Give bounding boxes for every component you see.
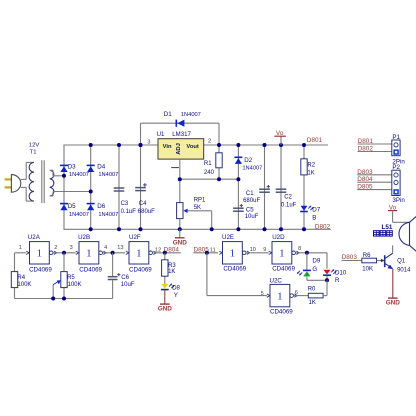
svg-text:3: 3 xyxy=(70,245,73,251)
connector P1 2Pin xyxy=(392,134,406,165)
svg-text:240: 240 xyxy=(204,170,215,176)
svg-text:1N4007: 1N4007 xyxy=(98,212,118,218)
wire speaker to Q1 collector xyxy=(392,245,394,253)
wire secondary top to bridge xyxy=(50,170,64,176)
gate U2E CD4069 xyxy=(219,234,249,273)
svg-text:D10: D10 xyxy=(335,270,347,277)
wire D1 loop xyxy=(141,123,220,145)
net label D801 P1 xyxy=(358,138,392,145)
junction C2 top xyxy=(279,143,283,147)
svg-text:3Pin: 3Pin xyxy=(392,197,405,204)
wire R5 column xyxy=(63,253,65,299)
connector P2 3Pin xyxy=(392,164,406,204)
svg-text:1N4007: 1N4007 xyxy=(69,172,89,178)
junction wiper rail xyxy=(210,227,214,231)
net label D801 top xyxy=(307,137,323,144)
junction R5 top xyxy=(62,251,66,255)
resistor R0 1K xyxy=(308,287,323,306)
wire U2D out to LED pair xyxy=(296,252,327,254)
pin 13 label xyxy=(117,245,123,251)
svg-text:U1: U1 xyxy=(157,131,165,138)
diode D5 1N4007 xyxy=(60,203,89,218)
svg-text:13: 13 xyxy=(117,245,123,251)
svg-text:CD4069: CD4069 xyxy=(272,265,295,272)
junction R2 top xyxy=(302,143,306,147)
junction R1 top xyxy=(217,143,221,147)
speaker L51 buzzer xyxy=(382,216,416,251)
wire ADJ horizontal xyxy=(180,178,239,180)
pin 8 label xyxy=(298,246,301,252)
svg-text:D1: D1 xyxy=(164,111,172,118)
ground GND under D8 xyxy=(158,290,173,313)
capacitor C2 0.1uF xyxy=(276,189,297,208)
svg-text:LM317: LM317 xyxy=(172,131,191,138)
svg-text:R: R xyxy=(335,277,340,284)
wire C1 column xyxy=(264,145,266,229)
op-amp U1 LM317 regulator xyxy=(157,131,204,159)
svg-text:12V: 12V xyxy=(29,143,40,149)
junction R5 bottom xyxy=(62,297,66,301)
svg-text:D801: D801 xyxy=(307,137,323,144)
svg-text:GND: GND xyxy=(173,239,188,246)
wire U2A out to U2B in xyxy=(53,252,75,254)
pin 3 label xyxy=(70,245,73,251)
svg-text:1: 1 xyxy=(37,248,43,260)
svg-text:1N4007: 1N4007 xyxy=(98,172,118,178)
potentiometer R5 100K xyxy=(53,272,81,288)
diode D6 1N4007 xyxy=(87,203,119,218)
svg-text:U2C: U2C xyxy=(270,278,283,285)
transformer T1 xyxy=(29,143,54,204)
gate U2C CD4069 xyxy=(267,278,297,316)
net label D803 P2 xyxy=(357,169,392,176)
ground GND main xyxy=(173,229,188,246)
svg-text:D9: D9 xyxy=(312,258,320,265)
junction wiper bottom xyxy=(51,297,55,301)
pin 5 label xyxy=(261,291,264,297)
svg-text:C3: C3 xyxy=(121,201,129,207)
svg-text:11: 11 xyxy=(210,248,216,254)
svg-text:3: 3 xyxy=(147,139,150,145)
wire RP1 wiper to ground rail xyxy=(187,211,211,230)
svg-text:10K: 10K xyxy=(362,267,373,273)
capacitor C3 0.1uF xyxy=(114,188,137,215)
svg-text:Vin: Vin xyxy=(163,144,172,150)
pin 1 label xyxy=(19,245,22,251)
svg-text:C6: C6 xyxy=(121,275,129,281)
pin 11 label xyxy=(210,248,216,254)
wire Vo to speaker xyxy=(393,211,410,223)
svg-text:10uF: 10uF xyxy=(245,214,259,220)
svg-text:U2A: U2A xyxy=(28,234,41,241)
wire U2B out to U2F in xyxy=(103,252,125,254)
gate U2F CD4069 xyxy=(126,234,156,273)
pin 6 label xyxy=(295,290,298,296)
svg-text:R6: R6 xyxy=(363,253,371,259)
svg-text:1: 1 xyxy=(230,248,236,260)
diode D4 1N4007 xyxy=(87,163,119,178)
svg-text:D4: D4 xyxy=(97,163,105,170)
svg-text:100K: 100K xyxy=(68,282,82,288)
net label D805 P2 xyxy=(357,184,392,191)
pin 3 label U1 xyxy=(147,139,150,145)
capacitor C5 10uF xyxy=(233,204,259,220)
svg-text:L51: L51 xyxy=(382,224,393,231)
LED D10 red xyxy=(323,269,347,284)
junction bridge mid top xyxy=(89,143,93,147)
svg-text:T1: T1 xyxy=(30,150,37,156)
junction D7 bottom rail xyxy=(302,227,306,231)
junction D9 top xyxy=(305,251,309,255)
svg-text:2: 2 xyxy=(208,138,211,144)
wire LED pair bottom xyxy=(307,279,327,281)
svg-text:10uF: 10uF xyxy=(121,282,135,288)
diode D1 1N4007 xyxy=(164,111,201,127)
wire bridge left column xyxy=(63,145,65,229)
wire U2C out to R0 xyxy=(294,295,309,297)
pin 2 label U1 xyxy=(208,138,211,144)
wire ADJ vertical xyxy=(179,159,181,203)
net label D803 base xyxy=(342,254,358,261)
resistor R4 100K xyxy=(11,272,31,288)
svg-text:1N4007: 1N4007 xyxy=(69,212,89,218)
pin 2 label xyxy=(54,245,57,251)
svg-text:R1: R1 xyxy=(204,161,212,167)
wire U2E out to U2D in xyxy=(246,252,268,254)
svg-text:D8: D8 xyxy=(172,285,180,292)
svg-text:1K: 1K xyxy=(307,171,314,177)
svg-text:U2F: U2F xyxy=(129,234,141,241)
svg-text:4: 4 xyxy=(104,245,107,251)
pin 4 label xyxy=(104,245,107,251)
svg-text:5K: 5K xyxy=(194,205,201,211)
pin 10 label xyxy=(250,247,256,253)
wire R5 wiper xyxy=(52,285,54,299)
svg-text:680uF: 680uF xyxy=(243,198,260,204)
junction ADJ xyxy=(178,177,182,181)
junction C6 top xyxy=(111,251,115,255)
capacitor C1 680uF xyxy=(243,185,270,204)
resistor R1 240 xyxy=(204,153,222,176)
svg-text:CD4069: CD4069 xyxy=(270,308,293,315)
svg-text:D5: D5 xyxy=(68,203,76,210)
resistor R6 10K xyxy=(362,253,377,273)
svg-text:2: 2 xyxy=(54,245,57,251)
svg-text:GND: GND xyxy=(386,300,401,307)
svg-text:R0: R0 xyxy=(308,287,316,293)
net label D802 bottom xyxy=(315,224,331,231)
junction C4 top xyxy=(139,143,143,147)
svg-text:680uF: 680uF xyxy=(138,209,155,215)
resistor R2 1K xyxy=(301,159,316,177)
svg-text:CD4069: CD4069 xyxy=(29,266,52,273)
net label D802 P1 xyxy=(358,145,392,152)
capacitor C6 10uF xyxy=(108,273,135,288)
wire D805 to U2E xyxy=(193,252,218,254)
potentiometer RP1 5K xyxy=(177,198,206,219)
svg-text:D6: D6 xyxy=(97,203,105,210)
resistor R3 1K xyxy=(162,260,177,276)
wire secondary bottom to bridge xyxy=(50,192,91,196)
svg-text:R3: R3 xyxy=(168,263,176,269)
net label D804 P2 xyxy=(357,176,392,183)
svg-text:100K: 100K xyxy=(17,282,31,288)
svg-text:U2B: U2B xyxy=(78,234,90,241)
svg-text:1N4007: 1N4007 xyxy=(181,112,201,118)
svg-text:1: 1 xyxy=(86,248,92,260)
svg-text:1K: 1K xyxy=(309,300,316,306)
svg-text:8: 8 xyxy=(298,246,301,252)
gate U2D CD4069 xyxy=(269,234,299,273)
node Vo flag xyxy=(274,130,286,145)
svg-text:9: 9 xyxy=(263,247,266,253)
net label D804 xyxy=(164,247,180,254)
svg-text:D802: D802 xyxy=(315,224,331,231)
svg-text:1K: 1K xyxy=(168,269,175,275)
wire D803 to R6 xyxy=(342,260,362,262)
wire oscillator feedback bottom xyxy=(15,298,113,300)
wire R6 to base xyxy=(377,260,382,262)
diode D3 1N4007 xyxy=(60,163,89,178)
svg-text:GND: GND xyxy=(158,306,173,313)
wire R2 D7 column xyxy=(303,145,305,229)
svg-text:D7: D7 xyxy=(312,207,320,214)
junction AC2 xyxy=(89,190,93,194)
junction C3 bottom xyxy=(117,227,121,231)
wire C6 column xyxy=(112,253,114,299)
transistor Q1 9014 xyxy=(381,253,411,273)
svg-text:P1: P1 xyxy=(392,134,400,141)
junction RP1 bottom rail xyxy=(178,227,182,231)
svg-text:Y: Y xyxy=(174,292,178,299)
svg-text:1: 1 xyxy=(277,291,283,303)
svg-text:D3: D3 xyxy=(68,163,76,170)
LED D9 green xyxy=(297,258,321,277)
wire bridge middle column xyxy=(90,145,92,229)
wire R4 column xyxy=(14,253,16,299)
svg-text:G: G xyxy=(312,266,317,273)
wire R3 column xyxy=(164,253,166,284)
svg-text:6: 6 xyxy=(295,290,298,296)
wire top rail left xyxy=(64,144,159,146)
svg-text:1: 1 xyxy=(19,245,22,251)
svg-text:Vout: Vout xyxy=(186,144,199,150)
junction C1 bottom xyxy=(263,227,267,231)
wire RP1 bottom xyxy=(179,219,181,230)
svg-text:CD4069: CD4069 xyxy=(129,266,152,273)
junction C4 bottom xyxy=(139,227,143,231)
wire top rail right xyxy=(204,144,328,146)
svg-text:C4: C4 xyxy=(139,201,147,207)
wire D10 branch xyxy=(326,253,328,280)
AC plug P input xyxy=(5,175,21,193)
junction D10 bottom xyxy=(325,278,329,282)
junction R1 bottom xyxy=(217,177,221,181)
wire C3 column xyxy=(118,145,120,229)
LED D8 yellow xyxy=(161,284,181,300)
junction C3 top xyxy=(117,143,121,147)
svg-text:1N4007: 1N4007 xyxy=(242,165,262,171)
svg-text:C1: C1 xyxy=(246,191,254,197)
junction C5 bottom rail xyxy=(236,227,240,231)
ground GND under Q1 xyxy=(386,269,401,307)
diode D2 1N4007 xyxy=(234,157,262,171)
junction bridge mid bottom xyxy=(89,227,93,231)
svg-text:R2: R2 xyxy=(307,163,315,169)
junction AC1 xyxy=(62,174,66,178)
svg-text:0.1uF: 0.1uF xyxy=(281,202,297,208)
label Chinese buzzer text xyxy=(374,231,393,236)
svg-text:0.1uF: 0.1uF xyxy=(121,209,137,215)
svg-text:D2: D2 xyxy=(244,157,252,164)
svg-text:1: 1 xyxy=(279,248,285,260)
svg-text:RP1: RP1 xyxy=(194,198,206,204)
gate U2B CD4069 xyxy=(76,234,106,273)
pin 1 dash U1 xyxy=(171,167,179,169)
gate U2A CD4069 xyxy=(26,234,56,273)
svg-text:ADJ: ADJ xyxy=(176,143,182,155)
net label D805 xyxy=(194,247,210,254)
wire C4 column xyxy=(140,145,142,229)
wire R1 column xyxy=(218,145,220,179)
junction U2C branch xyxy=(205,251,209,255)
svg-text:CD4069: CD4069 xyxy=(223,265,246,272)
wire U2F output D804 xyxy=(154,252,181,254)
svg-text:C2: C2 xyxy=(284,195,292,201)
wire C2 column xyxy=(280,145,282,229)
svg-text:C5: C5 xyxy=(246,207,254,213)
junction C2 bottom xyxy=(279,227,283,231)
svg-text:1: 1 xyxy=(136,248,142,260)
svg-text:9014: 9014 xyxy=(397,268,411,274)
svg-text:R4: R4 xyxy=(17,275,25,281)
svg-text:CD4069: CD4069 xyxy=(79,266,102,273)
svg-text:U2D: U2D xyxy=(272,234,285,241)
junction D2 top xyxy=(236,143,240,147)
junction Vin node xyxy=(139,143,143,147)
wire D9 branch xyxy=(306,253,308,280)
svg-text:P2: P2 xyxy=(392,164,400,171)
wire U2A input xyxy=(15,252,27,254)
svg-text:U2E: U2E xyxy=(222,234,234,241)
wire plug to primary bottom xyxy=(21,187,34,201)
svg-text:Q1: Q1 xyxy=(397,259,406,265)
wire U2C feedback xyxy=(207,253,267,296)
junction C1 top xyxy=(263,143,267,147)
LED D7 blue xyxy=(300,206,321,222)
node Vo flag speaker xyxy=(388,204,397,211)
svg-text:R5: R5 xyxy=(67,275,75,281)
junction R3 top xyxy=(163,251,167,255)
junction D2 bottom xyxy=(236,177,240,181)
wire D2 C5 column xyxy=(237,145,239,229)
wire R0 to LED pair xyxy=(323,280,327,295)
wire bottom rail xyxy=(64,228,331,230)
capacitor C4 680uF xyxy=(135,183,155,215)
svg-text:5: 5 xyxy=(261,291,264,297)
svg-text:D803: D803 xyxy=(342,254,358,261)
pin 12 label xyxy=(155,248,161,254)
pin 9 label xyxy=(263,247,266,253)
svg-text:Vo: Vo xyxy=(276,130,284,137)
wire plug to primary top xyxy=(21,162,34,179)
svg-text:B: B xyxy=(312,214,316,221)
